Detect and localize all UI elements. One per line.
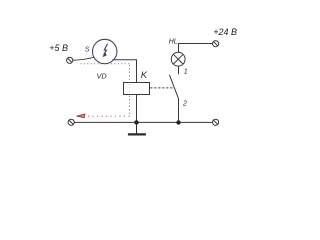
wire from relay coil K to ground junction xyxy=(136,95,138,123)
sensor S (circle with lightning bolt) xyxy=(93,39,117,63)
svg-text:2: 2 xyxy=(182,101,187,108)
svg-text:K: K xyxy=(141,70,148,81)
terminal X2 (bottom left, output) xyxy=(68,119,74,125)
relay contact K.1 (normally open) xyxy=(169,66,178,123)
bottom wire (common rail) xyxy=(74,121,212,123)
svg-text:+5 В: +5 В xyxy=(49,43,68,53)
red dotted feedback path (vertical below coil) xyxy=(129,96,131,117)
red dotted feedback path (top segment) xyxy=(81,63,130,65)
mechanical link (dashed) from coil K to contact xyxy=(150,87,174,89)
wire from sensor S to relay coil K xyxy=(113,60,137,83)
terminal X1 (+5V input) xyxy=(67,57,73,63)
wire from lamp HL to +24V terminal xyxy=(179,44,213,53)
junction node (relay/ground) xyxy=(134,120,138,124)
red arrow head xyxy=(77,114,86,118)
svg-text:1: 1 xyxy=(184,69,188,76)
wire from terminal X1 to sensor S xyxy=(73,57,94,60)
lamp HL (circle with cross) xyxy=(171,52,185,66)
red dotted feedback path (vertical through coil, faint) xyxy=(129,84,131,95)
relay coil K xyxy=(124,83,150,95)
svg-text:+24 В: +24 В xyxy=(213,27,237,37)
ground xyxy=(128,122,146,134)
terminal X3 (+24V input) xyxy=(213,41,219,47)
svg-text:HL: HL xyxy=(169,39,178,46)
svg-text:S: S xyxy=(85,45,90,54)
red dotted feedback path (vertical above coil) xyxy=(129,65,131,83)
svg-text:VD: VD xyxy=(97,72,108,81)
red dotted feedback path (bottom segment) xyxy=(85,115,130,117)
junction node (contact K.1) xyxy=(176,120,180,124)
terminal X4 (bottom right) xyxy=(213,119,219,125)
